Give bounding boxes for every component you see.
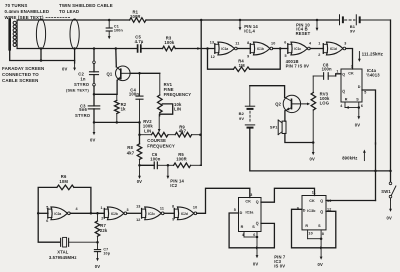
ground 0V arrow at cable screen	[62, 62, 76, 72]
svg-text:CK: CK	[309, 199, 315, 203]
svg-text:FREQUENCY: FREQUENCY	[147, 143, 175, 148]
IC3b labels	[297, 191, 332, 237]
search coil L1 core bar	[8, 20, 11, 50]
capacitor C8 100n	[313, 73, 341, 80]
svg-text:IC2d: IC2d	[181, 212, 188, 216]
svg-text:FARADAY SCREEN: FARADAY SCREEN	[2, 66, 44, 71]
NOR gate IC1d	[318, 42, 346, 57]
svg-text:6: 6	[46, 219, 48, 223]
node top rail junction	[200, 19, 203, 22]
label C6 100n	[150, 152, 160, 161]
svg-text:0V: 0V	[310, 157, 315, 162]
ground 0V arrow below R8	[137, 165, 142, 184]
label C8 100n	[322, 62, 332, 71]
svg-text:4k7: 4k7	[179, 129, 187, 134]
svg-text:0V: 0V	[95, 264, 100, 269]
svg-text:½4013: ½4013	[366, 73, 380, 78]
crystal XTAL 3.579545MHz	[38, 213, 97, 247]
label PIN 7 IC3 IS 0V	[274, 254, 286, 268]
svg-text:LOG: LOG	[320, 101, 330, 106]
node C4 lower join	[138, 121, 141, 124]
terminal circle C2 top	[93, 61, 96, 64]
svg-text:3: 3	[127, 208, 129, 212]
svg-text:FREQUENCY: FREQUENCY	[164, 92, 192, 97]
wire IC1a out to IC1b	[237, 48, 250, 50]
wire B2 plus to Q2 collector	[250, 86, 285, 98]
svg-text:WIRE (SEE TEXT): WIRE (SEE TEXT)	[5, 15, 44, 20]
capacitor C2 1n styro	[90, 64, 99, 84]
flip-flop IC3b box	[302, 196, 326, 230]
wire C3 bottom to R2/C4	[94, 121, 140, 123]
label RV2 100k LIN	[143, 119, 153, 133]
svg-text:70 TURNS: 70 TURNS	[5, 3, 27, 8]
long vertical wire rail	[199, 20, 202, 165]
node R7 top	[96, 212, 99, 215]
svg-text:0.4mm ENAMELLED: 0.4mm ENAMELLED	[5, 9, 50, 14]
svg-text:Q: Q	[342, 72, 345, 76]
wire C4 down to RV2 rail	[139, 122, 141, 143]
svg-text:S: S	[318, 224, 321, 228]
label R6 10M	[59, 174, 68, 184]
svg-text:3: 3	[344, 42, 346, 46]
svg-text:10p: 10p	[103, 251, 110, 255]
svg-text:0V: 0V	[137, 179, 142, 184]
search coil L1 turns (70 turns 0.4mm enamelled wire)	[13, 20, 17, 49]
svg-text:R: R	[345, 98, 348, 102]
wire IC1b out to IC1c	[273, 48, 288, 50]
svg-text:R: R	[305, 224, 308, 228]
node C2 top	[93, 47, 96, 50]
svg-text:IC2a: IC2a	[54, 212, 61, 216]
svg-text:Q̅: Q̅	[320, 210, 324, 214]
label IC4a half 4013	[366, 68, 380, 78]
wire IC3a Qbar to D loop	[229, 213, 274, 249]
cable screen loop 2	[70, 19, 79, 49]
label RV1 FINE FREQUENCY	[164, 82, 192, 97]
resistor R8 4k7	[137, 144, 142, 166]
svg-text:Q̅: Q̅	[342, 89, 346, 93]
svg-text:10: 10	[271, 42, 275, 46]
svg-text:4.7µ: 4.7µ	[135, 39, 144, 44]
svg-text:CK: CK	[245, 199, 251, 203]
svg-text:9: 9	[247, 54, 249, 58]
node R9 right	[199, 133, 202, 136]
svg-text:CONNECTED TO: CONNECTED TO	[2, 72, 39, 77]
node R8 bottom	[138, 164, 141, 167]
svg-text:10: 10	[193, 206, 197, 210]
wire R3 to gate input with arrow	[197, 47, 200, 50]
label RV3 100k LOG	[320, 91, 330, 105]
wire input to IC2a	[38, 212, 48, 214]
svg-text:6: 6	[253, 233, 255, 237]
svg-text:STYRO: STYRO	[75, 113, 91, 118]
svg-text:11: 11	[160, 207, 164, 211]
node C3 bottom	[93, 121, 96, 124]
svg-text:5n6: 5n6	[79, 107, 87, 112]
flip-flop IC4a box	[341, 69, 362, 102]
wire IC2d out to IC3a clock	[197, 188, 250, 213]
battery B1 9V	[340, 15, 391, 34]
svg-text:IS 0V: IS 0V	[274, 263, 285, 268]
svg-text:12: 12	[211, 55, 215, 59]
IC3b R S to 0V	[308, 230, 323, 267]
potentiometer RV3 100k LOG	[311, 76, 316, 143]
wire IC1c to IC1d	[310, 48, 323, 50]
label 70 TURNS 0.4mm ENAMELLED WIRE (SEE TEXT)	[5, 3, 50, 20]
wire D line down to IC3b Q	[375, 143, 377, 201]
label FARADAY SCREEN CONNECTED TO CABLE SCREEN	[2, 66, 44, 83]
svg-text:0V: 0V	[90, 138, 95, 143]
node 0V rail at supply rail	[389, 170, 392, 173]
wire loop2 to 0V	[74, 49, 76, 64]
wire IC3a Q up to IC3b clock	[261, 188, 315, 202]
svg-text:5: 5	[234, 208, 236, 212]
svg-text:(SEE TEXT): (SEE TEXT)	[66, 87, 89, 92]
label R3 100k	[164, 36, 174, 46]
svg-text:0V: 0V	[318, 262, 323, 267]
svg-text:11: 11	[235, 42, 239, 46]
svg-text:100R: 100R	[176, 156, 187, 161]
svg-text:6: 6	[284, 41, 286, 45]
svg-text:10: 10	[308, 232, 312, 236]
svg-text:9: 9	[172, 217, 174, 221]
svg-text:1: 1	[336, 70, 338, 74]
speaker SP1	[270, 120, 286, 135]
svg-text:IC2b: IC2b	[111, 212, 118, 216]
svg-text:PIN 7 IS 0V: PIN 7 IS 0V	[286, 64, 310, 69]
potentiometer RV2 100k LIN course frequency	[140, 132, 176, 137]
NOR gate IC2d	[172, 205, 197, 222]
node R6 right at output	[90, 212, 93, 215]
svg-text:13: 13	[136, 205, 140, 209]
svg-text:22k: 22k	[100, 228, 108, 233]
IC4a pin labels	[336, 65, 366, 109]
right supply rail	[390, 20, 392, 182]
NOR gate IC1c	[284, 41, 312, 59]
wire IC1d out to IC4a clock	[346, 49, 353, 70]
faraday screen wire	[10, 49, 75, 60]
svg-text:IC1,4: IC1,4	[244, 28, 255, 33]
node XTAL R7 C7	[96, 241, 99, 244]
svg-text:IC1c: IC1c	[294, 47, 301, 51]
svg-text:1k: 1k	[121, 107, 126, 112]
wire Q1 base to RV1	[130, 72, 160, 74]
svg-text:5: 5	[46, 205, 48, 209]
svg-text:IC2c: IC2c	[148, 212, 155, 216]
NOR gate IC1b	[247, 41, 275, 58]
svg-text:9V: 9V	[239, 116, 244, 121]
svg-text:S: S	[252, 225, 255, 229]
svg-text:0V: 0V	[387, 216, 392, 221]
svg-text:IC3b: IC3b	[307, 209, 315, 213]
svg-text:IC2: IC2	[170, 183, 177, 188]
label 10k LIN	[174, 102, 182, 112]
NOR gate IC2b	[101, 206, 129, 220]
supply arrow PIN 10 IC4B RESET	[296, 19, 319, 36]
wire Q1 emitter down	[116, 80, 118, 94]
label R7 22k	[100, 223, 108, 233]
supply arrow PIN 14 IC1,4	[239, 19, 259, 34]
node IC2a input	[37, 212, 40, 215]
svg-text:1: 1	[101, 206, 103, 210]
svg-text:C2: C2	[78, 71, 84, 76]
node PIN14 IC2 tap	[167, 164, 170, 167]
ground 0V arrow below SW1	[387, 198, 392, 221]
label 4001B PIN 7 IS 0V	[286, 59, 310, 69]
node C2/C3 junction	[93, 93, 96, 96]
node loop1 screen	[40, 59, 43, 62]
IC3a R S to 0V	[244, 232, 258, 267]
IC4a D wire	[362, 90, 376, 144]
resistor R6 10M loop	[38, 185, 91, 213]
wire C2 to C3 node	[93, 86, 95, 94]
wire Q2 emitter to speaker	[284, 111, 286, 121]
svg-text:XTAL: XTAL	[57, 250, 69, 255]
IC3a labels	[234, 193, 259, 237]
NOR gate IC2a	[46, 205, 78, 223]
svg-text:IC1b: IC1b	[257, 47, 264, 51]
label R8 4k7	[127, 145, 135, 156]
svg-text:8: 8	[322, 232, 324, 236]
battery B2 9V	[239, 86, 255, 128]
node RV3 bottom on 0V wire	[312, 141, 315, 144]
svg-text:4k7: 4k7	[127, 151, 135, 156]
svg-text:10M: 10M	[59, 179, 68, 184]
capacitor C1 100n	[106, 20, 123, 33]
svg-text:8: 8	[172, 205, 174, 209]
svg-text:11: 11	[312, 191, 316, 195]
svg-text:Q: Q	[320, 199, 323, 203]
label C5 4.7u	[135, 34, 144, 44]
node RV2 rail left	[138, 133, 141, 136]
svg-text:D: D	[303, 209, 306, 213]
transistor Q2	[275, 95, 310, 112]
svg-text:CK: CK	[348, 71, 354, 75]
wire loop1 to screen wire	[40, 49, 42, 61]
node feedback tap	[206, 47, 209, 50]
svg-text:1: 1	[318, 42, 320, 46]
node Q1 collector	[115, 47, 118, 50]
svg-text:0V: 0V	[253, 261, 258, 266]
label R5 100R	[176, 152, 187, 161]
RV1 wiper arrow onto RV2	[158, 114, 161, 132]
node IC1b out	[279, 47, 282, 50]
label COURSE FREQUENCY	[147, 138, 175, 148]
svg-text:TO LEAD: TO LEAD	[59, 9, 79, 14]
wire coil top to supply rail	[17, 19, 339, 21]
cable screen loop 1	[36, 19, 45, 49]
svg-text:13: 13	[210, 40, 214, 44]
ground arrow below C1	[108, 31, 111, 39]
resistor R5 100R	[168, 163, 201, 168]
label R4 1M	[238, 58, 245, 68]
svg-text:Q1: Q1	[107, 71, 113, 76]
IC4a R S to 0V	[345, 102, 360, 127]
resistor R9 4k7	[175, 132, 200, 137]
capacitor C5 4.7u	[138, 45, 141, 52]
node loop2 bottom	[73, 47, 76, 50]
wire IC2c to IC2d	[164, 212, 174, 214]
svg-text:2: 2	[318, 53, 320, 57]
svg-text:8: 8	[247, 41, 249, 45]
svg-text:Q2: Q2	[275, 101, 281, 106]
svg-text:890kHz: 890kHz	[342, 156, 357, 161]
flip-flop IC3a box	[239, 198, 262, 232]
svg-text:6: 6	[361, 104, 363, 108]
resistor R2 1k	[115, 94, 127, 122]
capacitor C3 5n6 styro	[88, 94, 100, 122]
svg-text:CABLE SCREEN: CABLE SCREEN	[2, 78, 38, 83]
svg-text:R8: R8	[127, 145, 133, 150]
switch SW1	[381, 182, 396, 198]
wire IC3b Q to IC4a D line	[326, 200, 376, 202]
svg-text:100R: 100R	[130, 14, 141, 19]
node C4 top	[138, 72, 141, 75]
svg-text:IC3a: IC3a	[246, 211, 254, 215]
svg-text:0V: 0V	[62, 67, 67, 72]
svg-text:IC1a: IC1a	[221, 47, 228, 51]
label R9 4k7	[179, 124, 187, 133]
ground 0V arrow below C3	[90, 122, 95, 142]
label C4 100n	[129, 88, 139, 97]
capacitor C6 100n	[154, 162, 168, 169]
wire R8 to C6	[140, 164, 155, 166]
svg-text:1n: 1n	[80, 77, 85, 82]
ground 0V arrow mid	[310, 143, 315, 162]
svg-text:2: 2	[101, 216, 103, 220]
potentiometer RV1 10k LIN fine frequency	[158, 73, 173, 116]
NOR gate IC1a	[210, 40, 240, 59]
node loop1 top wire	[40, 47, 43, 50]
svg-text:SP1: SP1	[270, 126, 278, 130]
svg-text:100n: 100n	[322, 66, 332, 71]
svg-text:3: 3	[250, 193, 252, 197]
label TWIN SHIELDED CABLE TO LEAD	[59, 3, 113, 14]
wire speaker to 0V wire	[285, 134, 313, 143]
svg-text:100n: 100n	[114, 29, 124, 33]
svg-text:0V: 0V	[355, 122, 360, 127]
svg-text:S: S	[356, 98, 359, 102]
svg-text:LIN: LIN	[174, 107, 181, 112]
node C1 top rail	[108, 19, 111, 22]
svg-text:100n: 100n	[129, 92, 139, 97]
wire Q1 collector	[115, 49, 118, 67]
svg-text:RESET: RESET	[296, 31, 311, 36]
svg-text:D: D	[358, 85, 361, 89]
svg-text:STYRO: STYRO	[74, 82, 90, 87]
arrow 890kHz	[342, 150, 366, 161]
svg-text:3: 3	[351, 65, 353, 69]
wire IC2b to IC2c	[127, 212, 142, 214]
wire B2 minus to 0V rail	[250, 128, 391, 171]
dashed cable screen line	[46, 16, 70, 18]
svg-text:100n: 100n	[150, 156, 160, 161]
svg-text:9V: 9V	[350, 28, 355, 33]
svg-text:13: 13	[327, 199, 331, 203]
capacitor C4 100n	[136, 73, 143, 122]
wire IC2a out	[70, 212, 104, 214]
wire coil bottom	[17, 48, 215, 50]
feedback wire with R4	[208, 49, 281, 72]
svg-text:12: 12	[136, 218, 140, 222]
svg-text:1M: 1M	[239, 63, 245, 68]
node 0V rail at D line	[374, 170, 377, 173]
NOR gate IC2c	[136, 205, 164, 222]
wire C5 to R3	[141, 48, 163, 50]
label C3 5n6 STYRO	[75, 103, 91, 118]
resistor R3 100k	[163, 46, 176, 51]
svg-text:LIN: LIN	[144, 128, 151, 133]
resistor R7 22k	[95, 213, 100, 242]
svg-text:5: 5	[285, 54, 287, 58]
svg-text:5: 5	[364, 90, 366, 94]
svg-text:D: D	[240, 211, 243, 215]
node R2 bottom	[116, 121, 119, 124]
arrow 111.25kHz	[358, 52, 383, 63]
svg-text:Q: Q	[256, 200, 259, 204]
svg-text:Q̅: Q̅	[255, 222, 259, 226]
svg-text:111.25kHz: 111.25kHz	[362, 52, 383, 57]
wire IC3b Qbar to D loop	[292, 209, 336, 249]
label XTAL 3.579545MHz	[49, 250, 77, 260]
capacitor C7 10p	[94, 242, 110, 255]
svg-text:100k: 100k	[164, 40, 174, 45]
svg-text:TWIN SHIELDED CABLE: TWIN SHIELDED CABLE	[59, 3, 113, 8]
label C2 1n STYRO (SEE TEXT)	[66, 71, 90, 92]
supply arrow PIN 14 IC2	[167, 165, 185, 188]
svg-text:R: R	[241, 225, 244, 229]
wire to C2	[93, 49, 95, 62]
wire C2C3 node to Q1 emitter	[94, 93, 117, 95]
svg-text:IC1d: IC1d	[330, 47, 337, 51]
svg-text:SW1: SW1	[381, 189, 391, 194]
resistor R1 100R	[130, 9, 146, 22]
transistor Q1	[107, 66, 131, 81]
terminal circle C2 bottom	[93, 83, 96, 86]
svg-text:3.579545MHz: 3.579545MHz	[49, 255, 77, 260]
ground 0V arrow below C7	[95, 252, 100, 269]
